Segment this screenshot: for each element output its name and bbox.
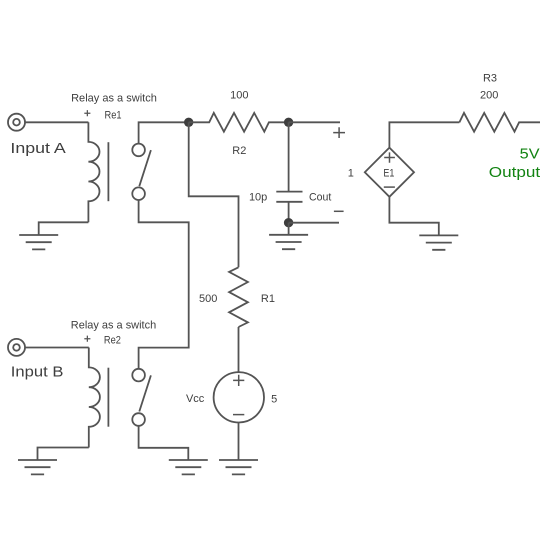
wire node A to Re1 switch — [139, 122, 189, 143]
wire Vcc to ground — [238, 423, 240, 461]
resistor R3 — [459, 113, 540, 132]
svg-text:200: 200 — [480, 89, 498, 101]
svg-text:E1: E1 — [383, 168, 394, 180]
relay Re1 core bar — [107, 142, 109, 201]
svg-text:R3: R3 — [483, 73, 497, 85]
wire Re2 coil to ground — [38, 448, 89, 461]
node A — [184, 118, 193, 127]
resistor R1 — [229, 267, 248, 327]
svg-text:100: 100 — [230, 90, 248, 102]
wire E1 top to R3 — [389, 122, 459, 147]
label + (output terminal) — [333, 127, 345, 138]
wire node C to ground — [288, 223, 290, 235]
wire node B to capacitor — [288, 122, 290, 191]
svg-text:10p: 10p — [249, 191, 267, 203]
label + (Re2 coil polarity) — [84, 336, 90, 342]
svg-text:Re1: Re1 — [105, 109, 122, 121]
relay Re2 coil — [89, 348, 100, 448]
resistor R2 — [189, 113, 289, 132]
ground (Cout) — [269, 235, 308, 249]
svg-text:R2: R2 — [232, 145, 246, 157]
svg-text:Vcc: Vcc — [186, 393, 205, 405]
wire Re1 coil to ground — [39, 222, 89, 235]
label - (output terminal) — [334, 210, 344, 212]
wire node C to - output terminal — [289, 222, 339, 224]
svg-text:R1: R1 — [261, 293, 275, 305]
capacitor Cout — [276, 192, 302, 202]
svg-text:Relay as a switch: Relay as a switch — [71, 93, 157, 105]
dependent source E1 — [365, 148, 414, 197]
svg-text:Input A: Input A — [10, 141, 66, 157]
svg-text:5V: 5V — [520, 145, 541, 162]
port Input A — [8, 114, 25, 131]
wire R1 to Vcc — [238, 327, 240, 372]
svg-text:5: 5 — [271, 394, 277, 406]
wire Re2 switch to ground — [139, 426, 189, 460]
port Input B — [8, 339, 25, 356]
svg-text:Output: Output — [489, 164, 541, 181]
wire Re1 switch bottom to Re2 switch top — [139, 200, 189, 369]
node B — [284, 118, 293, 127]
svg-text:Cout: Cout — [309, 192, 331, 204]
wire E1 bottom to ground — [389, 197, 438, 236]
svg-text:Re2: Re2 — [104, 335, 121, 347]
wire node B to + output terminal — [289, 121, 340, 123]
wire port A to Re1 coil — [25, 121, 88, 123]
label + (Re1 coil polarity) — [84, 110, 90, 116]
wire port B to Re2 coil — [25, 347, 89, 349]
voltage source Vcc — [214, 372, 264, 422]
ground (Re2 switch) — [169, 460, 208, 474]
svg-text:Input B: Input B — [11, 365, 64, 381]
svg-text:Relay as a switch: Relay as a switch — [71, 319, 156, 331]
relay Re1 switch — [132, 144, 151, 200]
node C — [284, 218, 293, 227]
svg-text:1: 1 — [348, 168, 354, 180]
ground (Vcc) — [219, 460, 258, 474]
relay Re1 coil — [88, 122, 99, 222]
wire capacitor to node C — [288, 202, 290, 223]
ground (Re2 coil) — [18, 460, 57, 474]
svg-text:500: 500 — [199, 293, 217, 305]
wire node A to R1 — [189, 122, 239, 267]
ground (E1) — [419, 235, 458, 249]
relay Re2 core bar — [107, 368, 109, 427]
relay Re2 switch — [132, 369, 151, 426]
ground (Re1 coil) — [19, 235, 58, 249]
